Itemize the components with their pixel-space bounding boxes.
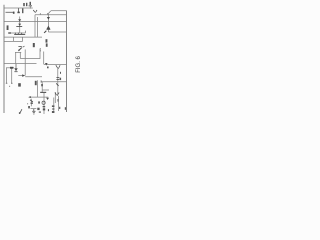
transistor Q4 emitter slant <box>44 30 47 33</box>
mark B29 <box>59 107 60 109</box>
marks B30 <box>65 107 66 110</box>
wire V5 <box>36 17 38 37</box>
wire H4 <box>35 14 67 16</box>
wire H16 <box>6 67 14 69</box>
text blob over H20 <box>40 92 46 93</box>
wire H10 with risers <box>4 37 23 41</box>
diode D2 <box>47 26 51 29</box>
wire H19 <box>41 81 67 83</box>
wire V6 <box>19 17 21 34</box>
wire H2 <box>6 11 15 13</box>
transistor Q3 bar <box>14 33 25 36</box>
wire left rail <box>3 5 5 113</box>
wire V4 <box>34 15 36 37</box>
wire H13 <box>20 49 40 59</box>
wire V9 <box>24 49 26 75</box>
transistor Q2 Y <box>33 10 36 13</box>
capacitor C3 bars <box>56 76 59 79</box>
diode D1 bar <box>16 25 22 28</box>
text 56 <box>23 3 25 6</box>
wire H7 <box>8 32 25 34</box>
wire V17a <box>54 92 56 103</box>
arrow on H15 <box>45 63 48 66</box>
wire V10b <box>19 53 21 59</box>
wire V17b <box>53 98 55 114</box>
wire V3 <box>29 6 31 9</box>
dashed vertical <box>39 48 42 49</box>
component blob under H15 <box>47 67 49 69</box>
diode D1 arrow <box>18 19 21 21</box>
wire H20 <box>42 89 49 91</box>
arrowhead down end H22 <box>46 98 49 100</box>
wire H14 <box>4 63 37 65</box>
box B24 <box>37 108 39 110</box>
text 64 <box>35 81 37 85</box>
text 76 <box>28 106 30 108</box>
node blob end of H2 <box>13 12 15 14</box>
tick H19 left end <box>40 80 43 82</box>
capacitor C1 <box>29 4 32 7</box>
arrowhead left H22 <box>28 96 31 98</box>
wire V15 <box>30 99 32 107</box>
wire V16b <box>57 96 59 111</box>
wire V18 <box>43 93 45 115</box>
tiny mark <box>26 103 29 104</box>
tiny mark <box>8 86 11 87</box>
transistor Q1 cluster <box>17 8 20 13</box>
wire right rail <box>66 11 68 113</box>
stack B28 <box>52 105 55 107</box>
tiny marks right of ground <box>39 111 41 112</box>
ground <box>32 109 35 111</box>
svg-text:FIG. 6: FIG. 6 <box>76 55 82 72</box>
wire bus H5 <box>4 20 67 22</box>
wire V13 <box>11 68 13 84</box>
marks B26 <box>43 106 46 107</box>
wire top bus H1 <box>4 7 33 9</box>
wire H9 <box>4 36 42 38</box>
wire H8 <box>48 31 66 33</box>
diode D1b arrow <box>18 24 21 26</box>
wire V16 <box>57 69 59 96</box>
wire stem Q5 <box>47 13 49 32</box>
text 54 mid <box>33 43 35 47</box>
marks B25 <box>38 101 40 103</box>
wire H3 <box>51 10 67 12</box>
arrow on H7 <box>8 32 11 34</box>
transistor Q8 Y <box>55 92 58 95</box>
transistor Q6 Y <box>56 65 59 69</box>
transistor Q9 blob <box>30 99 33 102</box>
text 150 <box>46 39 48 42</box>
mosfet M1 <box>18 45 21 48</box>
component mark on V8b <box>41 84 43 86</box>
diode D3 <box>16 68 18 71</box>
wire V12 <box>6 68 8 84</box>
wire diag into Q5 <box>49 11 51 14</box>
arrow head H17 <box>22 74 25 77</box>
arrow curve B21 <box>19 109 22 114</box>
wire H12 <box>15 51 21 53</box>
text 74 <box>60 78 62 80</box>
wire stub riser <box>24 31 26 33</box>
wire H17 arrow into node <box>18 75 24 77</box>
dot B27 <box>48 109 49 111</box>
wire V14 <box>36 80 38 97</box>
text 40 w arrow <box>18 83 21 86</box>
dots node <box>60 72 61 74</box>
capacitor C1 top text <box>26 3 27 6</box>
text 54 left <box>7 25 9 30</box>
transistor Q7 marks <box>56 83 59 86</box>
wire V8b <box>41 82 43 93</box>
wire H23 <box>31 108 37 110</box>
stub feet <box>6 82 8 85</box>
dots node2 <box>58 99 59 102</box>
wire H15 <box>44 63 67 65</box>
wire V10a <box>15 53 17 64</box>
wire H22 <box>29 96 48 98</box>
wire stub <box>46 13 48 15</box>
transistor Q5 arrow <box>47 17 50 20</box>
wire V8 <box>43 52 45 65</box>
transistor Q10 circle <box>42 101 45 104</box>
wire H18 <box>25 76 42 78</box>
wire stub <box>39 13 41 15</box>
capacitor C2 blob <box>10 67 13 69</box>
